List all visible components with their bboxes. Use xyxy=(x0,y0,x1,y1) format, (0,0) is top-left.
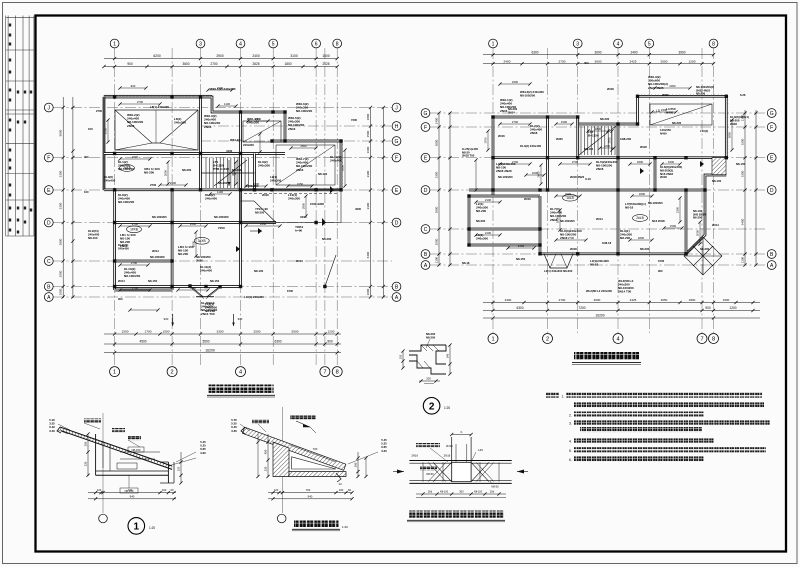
detail 3 bottom dim xyxy=(419,380,440,382)
right plan porch bottom entry xyxy=(544,254,573,268)
svg-text:2400: 2400 xyxy=(253,182,260,186)
svg-text:2625: 2625 xyxy=(252,62,259,66)
svg-text:120: 120 xyxy=(274,488,279,492)
detail 3 right dim xyxy=(449,345,451,374)
right plan title 三层平面梁配筋图 xyxy=(574,352,639,360)
svg-text:1500: 1500 xyxy=(723,298,730,302)
svg-text:2N16: 2N16 xyxy=(498,134,505,138)
svg-text:N8-18: N8-18 xyxy=(590,263,599,267)
svg-text:3300: 3300 xyxy=(366,170,370,177)
svg-text:2N16: 2N16 xyxy=(204,125,212,129)
svg-text:2N16: 2N16 xyxy=(411,454,418,458)
svg-text:4100: 4100 xyxy=(226,149,233,153)
svg-text:3: 3 xyxy=(576,41,579,47)
detail 1 section number circle 1 xyxy=(128,518,145,535)
svg-text:N8-100: N8-100 xyxy=(88,236,98,240)
left plan slab oval label 2#XB xyxy=(120,165,135,172)
svg-text:6: 6 xyxy=(315,41,318,47)
svg-text:2700: 2700 xyxy=(137,100,144,104)
right plan axis grid horizontal lines xyxy=(430,112,767,114)
svg-text:100: 100 xyxy=(88,127,93,131)
right plan wall axis2 vertical xyxy=(546,117,549,190)
svg-text:6400: 6400 xyxy=(741,218,745,225)
detail 2 small circle node xyxy=(277,514,286,523)
right plan stair treads xyxy=(580,126,582,155)
svg-text:1700: 1700 xyxy=(145,330,152,334)
detail 4 hole vertical stubs xyxy=(451,437,453,462)
svg-text:1:20: 1:20 xyxy=(342,525,348,529)
right plan wall vertical x686 xyxy=(685,190,688,254)
svg-text:2.: 2. xyxy=(569,414,572,418)
svg-text:N8-150: N8-150 xyxy=(210,279,220,283)
svg-text:3000: 3000 xyxy=(595,59,602,63)
svg-text:1500: 1500 xyxy=(287,289,293,293)
right plan right dimension chains xyxy=(744,110,746,265)
left plan porch bay bottom xyxy=(190,286,203,297)
left plan bottom dimension chain total 16200 xyxy=(104,352,341,354)
svg-text:2#LB: 2#LB xyxy=(636,216,643,220)
svg-text:450: 450 xyxy=(264,449,268,454)
left plan slab edge ticks upper xyxy=(104,95,212,97)
detail 1 left dim vertical xyxy=(87,434,89,476)
svg-text:L8(1) 240x300: L8(1) 240x300 xyxy=(150,105,169,109)
svg-text:2N20: 2N20 xyxy=(556,137,563,141)
right plan wall on E axis xyxy=(493,156,726,159)
svg-text:2N18 2N20: 2N18 2N20 xyxy=(496,169,512,173)
svg-text:2425: 2425 xyxy=(630,298,637,302)
svg-text:1-1: 1-1 xyxy=(232,171,236,175)
svg-text:3200: 3200 xyxy=(741,138,745,145)
svg-text:2100: 2100 xyxy=(255,117,262,121)
svg-text:3300: 3300 xyxy=(435,171,439,178)
svg-text:N8-100/200: N8-100/200 xyxy=(124,274,140,278)
svg-text:2400: 2400 xyxy=(252,54,260,58)
svg-text:D: D xyxy=(47,220,51,226)
svg-text:H: H xyxy=(395,124,399,130)
detail 4 beam top flange xyxy=(409,460,511,462)
svg-text:L2(1) 240x300 N8-200: L2(1) 240x300 N8-200 xyxy=(544,269,573,273)
svg-text:3000: 3000 xyxy=(594,298,601,302)
right plan columns xyxy=(491,115,494,118)
svg-text:2000: 2000 xyxy=(696,229,700,236)
svg-text:N8-100: N8-100 xyxy=(584,147,594,151)
svg-text:240: 240 xyxy=(446,353,450,358)
svg-text:2N18: 2N18 xyxy=(127,124,135,128)
svg-text:L10(1): L10(1) xyxy=(700,129,708,133)
detail 2 dim 700 on slope xyxy=(290,445,336,462)
left plan exterior wall left side xyxy=(103,97,106,190)
left plan wall axis3 stair wall xyxy=(199,97,202,190)
svg-text:3150: 3150 xyxy=(260,222,267,226)
svg-text:N8-200: N8-200 xyxy=(620,236,630,240)
svg-text:N8-200: N8-200 xyxy=(600,117,610,121)
svg-text:2700: 2700 xyxy=(132,286,139,290)
svg-text:2050: 2050 xyxy=(661,298,668,302)
svg-text:2700: 2700 xyxy=(559,59,566,63)
svg-text:1600: 1600 xyxy=(532,171,539,175)
title strip table xyxy=(5,16,7,237)
left plan axis grid horizontal lines xyxy=(53,107,392,109)
svg-text:F: F xyxy=(395,155,398,161)
left plan slab edge hatching top xyxy=(104,94,212,96)
detail 2 right dim vertical xyxy=(357,452,359,477)
svg-text:3300: 3300 xyxy=(217,330,224,334)
left plan slab oval label 1#XB xyxy=(127,226,142,233)
svg-text:2500: 2500 xyxy=(300,144,307,148)
svg-text:2500: 2500 xyxy=(104,127,108,134)
svg-text:1500: 1500 xyxy=(561,120,568,124)
detail 1 roof slab hatch xyxy=(61,429,173,468)
svg-text:2: 2 xyxy=(171,370,174,376)
svg-text:1N8-18: 1N8-18 xyxy=(602,241,612,245)
svg-text:1600: 1600 xyxy=(366,146,370,153)
svg-text:120: 120 xyxy=(177,466,181,471)
svg-text:5.: 5. xyxy=(569,449,572,453)
right plan bottom right diagonal corner xyxy=(686,175,726,254)
svg-text:2700: 2700 xyxy=(210,62,217,66)
detail 4 title 梁上开洞附加钢筋及构造做大样 xyxy=(409,511,504,518)
svg-text:1#XB: 1#XB xyxy=(130,228,138,232)
svg-text:940: 940 xyxy=(308,494,313,498)
svg-text:N8-100: N8-100 xyxy=(440,491,449,494)
svg-text:N8-50: N8-50 xyxy=(491,485,499,489)
svg-text:900: 900 xyxy=(118,297,123,301)
left plan right axis bubbles J H G F E D B A xyxy=(392,103,401,112)
svg-text:2300: 2300 xyxy=(217,86,224,90)
svg-text:N8-200: N8-200 xyxy=(672,121,682,125)
svg-text:2N14 T00: 2N14 T00 xyxy=(618,290,632,294)
svg-text:5500: 5500 xyxy=(202,340,209,344)
left plan axis grid vertical lines xyxy=(114,48,116,366)
svg-text:N8-200: N8-200 xyxy=(696,92,706,96)
svg-text:7: 7 xyxy=(323,370,326,376)
left plan top axis bubbles 1 3 4 5 6 8 xyxy=(110,39,119,48)
right plan bottom dimension chain total xyxy=(483,317,760,319)
left plan exterior wall upper-left block xyxy=(104,97,285,141)
svg-text:240x300: 240x300 xyxy=(270,178,282,182)
svg-text:N8-100/200: N8-100/200 xyxy=(648,201,663,205)
detail 4 stirrup verticals xyxy=(422,462,424,481)
svg-text:G: G xyxy=(395,139,399,145)
svg-text:1200: 1200 xyxy=(328,330,335,334)
right plan bottom dimension chain intermediate xyxy=(483,310,760,312)
left plan slab oval label 3#XB xyxy=(194,237,209,244)
svg-text:WL2(5K1.2 240x300: WL2(5K1.2 240x300 xyxy=(586,289,612,293)
svg-text:4: 4 xyxy=(239,370,242,376)
detail 1 wall and bottom slab xyxy=(95,434,97,475)
svg-text:2N16: 2N16 xyxy=(196,258,203,262)
svg-text:C: C xyxy=(424,227,428,233)
detail 1 right dim vertical xyxy=(180,452,182,483)
left plan bottom edge lower-left xyxy=(115,289,173,292)
svg-text:700: 700 xyxy=(306,488,311,492)
svg-text:240x600: 240x600 xyxy=(243,143,254,147)
svg-text:N8-100/200: N8-100/200 xyxy=(498,175,513,179)
svg-text:N8-100/200: N8-100/200 xyxy=(152,215,167,219)
svg-text:3100: 3100 xyxy=(290,54,298,58)
svg-text:2N18: 2N18 xyxy=(730,122,737,126)
svg-text:3900: 3900 xyxy=(678,50,685,54)
svg-text:2N14: 2N14 xyxy=(152,249,159,253)
svg-text:N8-18: N8-18 xyxy=(462,261,470,265)
svg-text:2025: 2025 xyxy=(322,62,329,66)
svg-text:2N18: 2N18 xyxy=(570,247,577,251)
svg-text:240x400: 240x400 xyxy=(118,246,129,250)
right plan top dimension chain detail xyxy=(483,63,714,65)
svg-text:2N16: 2N16 xyxy=(288,127,296,131)
svg-text:3.90: 3.90 xyxy=(200,451,206,455)
detail 2 bottom dimension lines xyxy=(268,492,352,494)
right plan internal dimension marks xyxy=(500,123,530,125)
left plan left dimension chains xyxy=(62,97,64,298)
svg-text:N8-150: N8-150 xyxy=(132,448,141,452)
svg-text:100: 100 xyxy=(339,488,344,492)
svg-text:6400: 6400 xyxy=(366,251,370,258)
svg-text:3.36: 3.36 xyxy=(231,429,237,433)
svg-text:N8-200: N8-200 xyxy=(476,209,486,213)
svg-text:PTB h=100: PTB h=100 xyxy=(213,167,229,171)
svg-text:3: 3 xyxy=(199,41,202,47)
detail 2 eave tip xyxy=(241,427,245,434)
left plan top dimension chain overall xyxy=(104,58,337,60)
right plan wall vertical x655 xyxy=(654,158,657,190)
svg-text:230: 230 xyxy=(264,466,268,471)
svg-text:N8-200: N8-200 xyxy=(178,252,188,256)
svg-text:1400: 1400 xyxy=(435,117,439,124)
svg-text:2N16: 2N16 xyxy=(524,197,531,201)
right plan exterior upper-right roof block xyxy=(638,96,727,157)
detail 1 centerline xyxy=(102,413,104,513)
svg-text:N8-200: N8-200 xyxy=(255,210,265,214)
notes line 3 continuation xyxy=(580,427,702,432)
svg-text:8: 8 xyxy=(336,370,339,376)
left plan deck rail dashes xyxy=(244,193,337,195)
left plan right wing inner room xyxy=(276,145,335,185)
svg-text:700: 700 xyxy=(313,447,318,451)
right plan left exterior wall xyxy=(492,117,495,196)
svg-text:2N18 2N20: 2N18 2N20 xyxy=(570,175,585,179)
svg-text:1700: 1700 xyxy=(484,137,488,144)
svg-text:D: D xyxy=(395,220,399,226)
detail 2 title 屋面檐口做法 xyxy=(294,520,339,528)
right plan axis grid vertical lines xyxy=(492,48,494,333)
svg-text:3300: 3300 xyxy=(59,170,63,177)
svg-text:1500: 1500 xyxy=(670,224,677,228)
svg-text:3400: 3400 xyxy=(505,298,512,302)
svg-text:N8-100: N8-100 xyxy=(318,172,328,176)
svg-text:100: 100 xyxy=(84,190,89,194)
svg-text:N450: N450 xyxy=(666,111,674,115)
left plan level change arrows 900 xyxy=(172,314,174,326)
detail 4 X bracing left xyxy=(433,462,452,481)
right plan bottom wall on B axis xyxy=(540,252,686,255)
svg-text:1100: 1100 xyxy=(224,102,230,106)
svg-text:6300: 6300 xyxy=(274,340,281,344)
svg-text:2200: 2200 xyxy=(565,192,572,196)
right plan top axis bubbles 1 3 4 5 8 xyxy=(489,39,498,48)
detail 3 left dims xyxy=(402,351,404,368)
svg-text:N8-100: N8-100 xyxy=(736,162,746,166)
svg-text:N8-100/200: N8-100/200 xyxy=(520,93,535,97)
svg-text:60: 60 xyxy=(171,488,174,492)
right plan exterior wall top left part xyxy=(493,116,578,119)
right plan bottom axis bubbles 1 2 4 7 8 xyxy=(488,334,498,344)
svg-text:N8-100: N8-100 xyxy=(712,179,722,183)
right plan top dimension chain overall xyxy=(483,54,714,56)
svg-text:16200: 16200 xyxy=(205,348,215,352)
svg-text:N8-200: N8-200 xyxy=(144,171,154,175)
svg-text:3100: 3100 xyxy=(190,286,197,290)
svg-text:1800: 1800 xyxy=(595,127,602,131)
svg-text:3800: 3800 xyxy=(59,238,63,245)
left plan right dimension chains xyxy=(370,108,372,298)
svg-text:F: F xyxy=(47,155,50,161)
right plan slab oval label 1#LB xyxy=(563,194,578,201)
title strip text marks xyxy=(9,24,11,27)
svg-text:3#XB: 3#XB xyxy=(198,239,206,243)
svg-text:6.26: 6.26 xyxy=(740,93,746,97)
svg-text:4: 4 xyxy=(239,41,242,47)
svg-text:240x300: 240x300 xyxy=(258,164,270,168)
right plan exterior wall stair top xyxy=(578,117,638,124)
right plan wall on C axis xyxy=(469,228,540,231)
detail 2 centerline xyxy=(282,407,284,513)
svg-text:2700: 2700 xyxy=(132,222,139,226)
right plan slab edge hatch upper-right block xyxy=(638,94,727,96)
svg-text:1800: 1800 xyxy=(689,298,696,302)
svg-text:2700: 2700 xyxy=(132,155,139,159)
svg-text:1#LB: 1#LB xyxy=(566,196,573,200)
svg-text:N8-50: N8-50 xyxy=(426,472,434,476)
left plan title 二层平面板配筋图 xyxy=(209,385,274,393)
svg-text:G: G xyxy=(424,111,428,117)
svg-text:900: 900 xyxy=(131,84,136,88)
svg-text:N8-150: N8-150 xyxy=(148,279,158,283)
svg-text:2N16: 2N16 xyxy=(262,193,269,197)
detail 2 top leader flag 找坡层做法 xyxy=(290,416,316,421)
detail 1 rebar label boxes xyxy=(128,447,144,452)
right plan protruding room left xyxy=(469,195,540,198)
svg-text:20d: 20d xyxy=(490,490,495,494)
svg-text:2N16: 2N16 xyxy=(296,168,304,172)
svg-text:WKL4(1): WKL4(1) xyxy=(230,138,242,142)
svg-text:60: 60 xyxy=(348,488,351,492)
svg-text:2900: 2900 xyxy=(216,54,224,58)
detail 1 inner reinforcement lines xyxy=(102,441,104,468)
svg-text:4600: 4600 xyxy=(355,207,361,211)
right plan hatched strip below E right side xyxy=(712,158,726,175)
right plan section cut triangles xyxy=(640,168,644,174)
svg-text:N450: N450 xyxy=(660,131,667,135)
left plan wall on D axis xyxy=(115,221,276,224)
svg-text:1: 1 xyxy=(492,41,495,47)
svg-text:1500x1800: 1500x1800 xyxy=(310,202,324,206)
left plan lower-left block walls xyxy=(113,190,116,290)
svg-text:1000: 1000 xyxy=(366,288,370,295)
svg-text:F: F xyxy=(770,125,773,131)
svg-text:3300: 3300 xyxy=(741,170,745,177)
detail 4 side arrows xyxy=(397,470,404,474)
left plan wall axis4 upper xyxy=(239,112,242,190)
svg-text:6.: 6. xyxy=(569,458,572,462)
detail 1 small circle node xyxy=(99,514,108,523)
right plan rotated ornament diamond xyxy=(684,237,722,275)
svg-text:2700: 2700 xyxy=(512,120,519,124)
left plan section cut triangles xyxy=(258,228,262,234)
svg-text:5500: 5500 xyxy=(292,330,299,334)
svg-text:100: 100 xyxy=(162,488,167,492)
svg-text:1200: 1200 xyxy=(729,306,736,310)
left plan bottom axis bubbles 1 2 4 7 8 xyxy=(110,367,120,377)
detail 1 sloped roof slab xyxy=(60,427,172,466)
detail 2 hatched vertical leg xyxy=(273,442,289,477)
svg-text:200: 200 xyxy=(426,377,431,381)
left plan stair treads xyxy=(205,158,207,189)
svg-text:1N8-200: 1N8-200 xyxy=(620,137,631,141)
svg-text:1: 1 xyxy=(491,337,494,343)
svg-text:1100: 1100 xyxy=(741,257,745,264)
svg-text:240x400: 240x400 xyxy=(200,269,212,273)
svg-text:2100: 2100 xyxy=(485,198,492,202)
svg-text:N8-18: N8-18 xyxy=(625,206,634,210)
svg-text:3.20: 3.20 xyxy=(381,449,387,453)
svg-text:2: 2 xyxy=(546,337,549,343)
detail 1 bottom dimension lines xyxy=(88,492,176,494)
svg-text:1500: 1500 xyxy=(658,259,665,263)
svg-text:2N25: 2N25 xyxy=(662,93,669,97)
svg-text:1500: 1500 xyxy=(322,54,330,58)
svg-text:2N18: 2N18 xyxy=(607,87,614,91)
left plan bottom dimension chain intermediate xyxy=(104,343,341,345)
right plan wall on D axis xyxy=(469,189,705,192)
svg-text:6200: 6200 xyxy=(153,54,161,58)
svg-text:N16 2N18: N16 2N18 xyxy=(652,219,665,223)
svg-text:2300: 2300 xyxy=(669,84,676,88)
detail 4 bottom dimension chain xyxy=(416,493,506,495)
svg-text:1500: 1500 xyxy=(366,130,370,137)
left plan upper-left room with hip roof diagonals xyxy=(115,110,198,150)
svg-text:1:20: 1:20 xyxy=(444,406,450,410)
detail 3 step outline xyxy=(409,345,446,374)
left plan moment arrows right side xyxy=(330,186,334,193)
right plan wall axis4 vertical xyxy=(617,124,620,254)
left plan stair arrow xyxy=(228,160,230,186)
svg-text:L25: L25 xyxy=(478,448,483,452)
right plan left dimension chains xyxy=(438,113,440,265)
svg-text:2N14: 2N14 xyxy=(296,259,303,263)
left plan columns xyxy=(113,95,116,98)
detail 4 X bracing right xyxy=(471,462,489,481)
svg-text:7200: 7200 xyxy=(351,118,357,122)
svg-text:940: 940 xyxy=(130,494,135,498)
svg-text:1: 1 xyxy=(113,370,116,376)
svg-text:240x400: 240x400 xyxy=(330,159,342,163)
svg-text:2700: 2700 xyxy=(568,236,575,240)
svg-text:4500: 4500 xyxy=(139,340,146,344)
svg-text:2400: 2400 xyxy=(630,50,637,54)
svg-text:1100: 1100 xyxy=(435,257,439,264)
svg-text:7: 7 xyxy=(700,337,703,343)
left plan wall on E axis xyxy=(104,188,341,191)
svg-text:2400: 2400 xyxy=(504,59,511,63)
detail 2 left dim vertical xyxy=(267,434,269,477)
detail 2 slope label 保温找坡 xyxy=(252,419,269,423)
svg-text:3300: 3300 xyxy=(366,202,370,209)
svg-text:N8-200: N8-200 xyxy=(426,335,436,339)
svg-text:2700: 2700 xyxy=(96,109,102,113)
svg-text:120: 120 xyxy=(97,488,102,492)
svg-text:230: 230 xyxy=(84,461,88,466)
